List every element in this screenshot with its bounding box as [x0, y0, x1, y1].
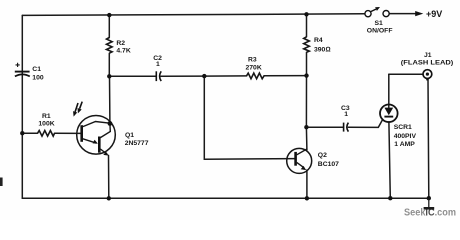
wire mid rail C2 to node A [161, 75, 204, 77]
wire SCR anode to J1 [389, 73, 423, 75]
resistor R2 [107, 38, 113, 54]
connector J1 [423, 70, 432, 81]
svg-text:R3: R3 [248, 57, 257, 64]
light arrows into Q1 [73, 102, 82, 117]
svg-text:400PIV: 400PIV [394, 133, 417, 140]
wire bottom rail [22, 197, 429, 199]
svg-text:R2: R2 [116, 40, 125, 47]
transistor Q2 [287, 148, 312, 173]
svg-text:1: 1 [344, 111, 348, 118]
wire C3 node to Q2 collector [305, 127, 308, 150]
svg-text:BC107: BC107 [318, 161, 339, 168]
svg-text:(FLASH LEAD): (FLASH LEAD) [401, 60, 454, 67]
wire R4 node down to C3 node [305, 76, 307, 128]
svg-text:ON/OFF: ON/OFF [367, 28, 393, 35]
svg-text:2N5777: 2N5777 [125, 140, 149, 147]
node bottom Q1 [107, 196, 111, 200]
watermark stub [424, 198, 435, 208]
wire left rail [21, 15, 23, 198]
node bottom Q2 [305, 196, 309, 200]
wire Q2 emitter to bottom rail [306, 170, 308, 198]
svg-text:R4: R4 [314, 37, 323, 44]
phototransistor Q1 [77, 116, 116, 156]
svg-text:R1: R1 [42, 113, 51, 120]
wire R1 to Q1 base [55, 132, 81, 134]
wire top rail [22, 14, 365, 16]
svg-text:+9V: +9V [426, 9, 442, 19]
svg-text:270K: 270K [246, 64, 262, 71]
+9V arrow [415, 11, 423, 16]
wire mid rail node A to R3 [204, 75, 246, 77]
node Q1 collector [108, 121, 113, 126]
switch S1 [365, 7, 389, 17]
svg-text:S1: S1 [375, 20, 384, 27]
wire SCR cathode to bottom rail [389, 122, 390, 198]
SCR1 [380, 105, 398, 123]
capacitor C1 [15, 63, 30, 77]
wire SCR anode riser [388, 74, 390, 104]
capacitor C3 [344, 123, 349, 132]
svg-text:J1: J1 [424, 52, 432, 59]
wire Q1 collector riser [109, 76, 111, 123]
wire J1 down to bottom rail [427, 79, 430, 198]
svg-text:SCR1: SCR1 [394, 124, 412, 131]
wire mid rail left segment [109, 75, 156, 77]
node bottom SCR [388, 196, 392, 200]
wire R1 left to zigzag [22, 132, 37, 134]
wire C3 to SCR gate [348, 119, 382, 127]
node mid R4 [304, 73, 308, 77]
svg-text:390Ω: 390Ω [314, 46, 331, 53]
node bottom J1 [427, 196, 431, 200]
wire R2 branch top [108, 15, 110, 38]
node top R2 [107, 13, 111, 17]
node left R1 [20, 131, 24, 135]
svg-text:100K: 100K [38, 120, 54, 127]
wire R4 branch top [306, 14, 308, 37]
node top R4 [304, 12, 308, 16]
node C3 branch [304, 125, 308, 129]
node mid R2 [107, 74, 111, 78]
resistor R3 [247, 73, 265, 79]
wire C3 node to C3 [306, 126, 343, 128]
wire R2 to mid rail [108, 53, 110, 76]
edge artifact [0, 178, 3, 187]
wire switch to +9V arrow [389, 13, 416, 15]
wire node A down to Q2 base [204, 76, 294, 159]
svg-text:4.7K: 4.7K [116, 48, 130, 55]
node A [202, 74, 206, 78]
wire mid rail R3 to R4 node [264, 75, 307, 77]
wire R4 to mid rail [306, 52, 308, 75]
svg-text:C1: C1 [32, 66, 41, 73]
svg-text:Q2: Q2 [318, 152, 327, 159]
resistor R4 [304, 37, 310, 53]
resistor R1 [38, 131, 55, 137]
wire Q1 emitter to bottom rail [108, 155, 110, 198]
svg-text:1 AMP: 1 AMP [394, 141, 415, 148]
svg-text:Q1: Q1 [125, 132, 134, 139]
svg-text:1: 1 [156, 61, 160, 68]
svg-text:100: 100 [32, 74, 44, 81]
capacitor C2 [156, 71, 161, 81]
